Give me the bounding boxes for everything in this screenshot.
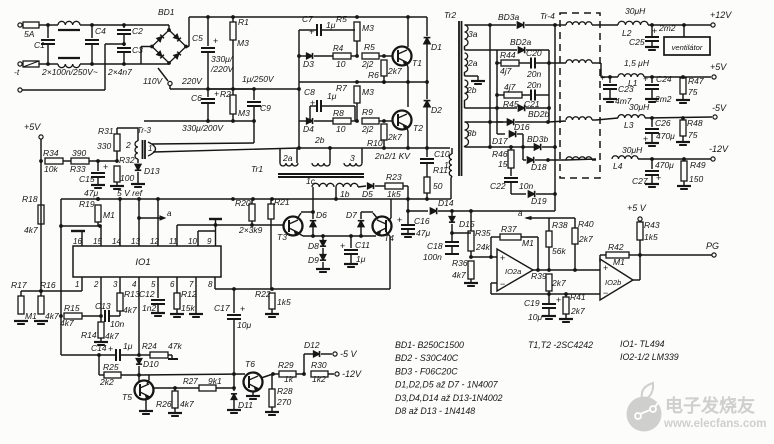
- svg-text:C6: C6: [191, 93, 202, 103]
- svg-text:+: +: [643, 74, 648, 84]
- svg-text:1μ/250V: 1μ/250V: [242, 74, 275, 84]
- svg-text:10: 10: [188, 237, 197, 246]
- svg-text:BD2 - S30C40C: BD2 - S30C40C: [395, 353, 459, 363]
- svg-text:C12: C12: [139, 289, 155, 299]
- svg-text:R25: R25: [103, 362, 119, 372]
- svg-text:-12V: -12V: [709, 144, 729, 154]
- svg-text:C26: C26: [655, 118, 671, 128]
- svg-text:R48: R48: [687, 118, 703, 128]
- svg-text:8: 8: [208, 280, 213, 289]
- svg-text:3b: 3b: [467, 128, 477, 138]
- svg-text:R32: R32: [119, 155, 135, 165]
- svg-text:15: 15: [498, 159, 508, 169]
- svg-text:R30: R30: [311, 360, 327, 370]
- svg-text:IO2b: IO2b: [605, 278, 621, 287]
- svg-text:R18: R18: [22, 194, 38, 204]
- svg-text:M1: M1: [103, 210, 115, 220]
- svg-text:D7: D7: [346, 210, 357, 220]
- svg-text:T1: T1: [412, 58, 422, 68]
- svg-text:4j7: 4j7: [504, 82, 516, 92]
- svg-text:R41: R41: [570, 292, 586, 302]
- svg-text:+5 V: +5 V: [627, 203, 647, 213]
- svg-text:R14: R14: [81, 330, 97, 340]
- svg-text:R35: R35: [475, 228, 491, 238]
- svg-text:5: 5: [151, 280, 156, 289]
- svg-text:C25: C25: [629, 37, 645, 47]
- svg-text:+: +: [600, 73, 605, 83]
- svg-text:R38: R38: [552, 220, 568, 230]
- svg-text:4k7: 4k7: [452, 270, 466, 280]
- svg-text:R5: R5: [336, 14, 347, 24]
- svg-text:56k: 56k: [552, 246, 566, 256]
- svg-text:R36: R36: [452, 258, 468, 268]
- svg-text:+: +: [397, 215, 402, 225]
- svg-text:10n: 10n: [519, 181, 533, 191]
- svg-text:R1: R1: [238, 17, 249, 27]
- svg-text:2: 2: [93, 280, 99, 289]
- svg-text:100n: 100n: [423, 252, 442, 262]
- svg-text:2n2/1 KV: 2n2/1 KV: [374, 151, 411, 161]
- svg-text:R34: R34: [43, 148, 59, 158]
- svg-text:+12V: +12V: [710, 10, 732, 20]
- svg-text:−: −: [500, 279, 505, 289]
- svg-text:R7: R7: [336, 83, 347, 93]
- svg-text:2b: 2b: [466, 85, 477, 95]
- svg-text:-12V: -12V: [342, 369, 362, 379]
- svg-text:D14: D14: [438, 198, 454, 208]
- svg-text:7: 7: [189, 280, 194, 289]
- svg-text:390: 390: [72, 148, 86, 158]
- svg-text:2k2: 2k2: [99, 377, 114, 387]
- svg-text:50: 50: [433, 181, 443, 191]
- svg-text:R4: R4: [333, 44, 344, 53]
- svg-text:1n2: 1n2: [142, 303, 156, 313]
- svg-text:R6: R6: [368, 70, 379, 80]
- svg-text:T6: T6: [245, 359, 255, 369]
- svg-text:C11: C11: [355, 240, 370, 250]
- svg-text:D8: D8: [308, 241, 319, 251]
- svg-text:2×3k9: 2×3k9: [238, 225, 263, 235]
- svg-text:R19: R19: [79, 199, 95, 209]
- svg-text:30μH: 30μH: [622, 145, 643, 155]
- svg-text:L4: L4: [613, 161, 623, 171]
- svg-text:C1: C1: [34, 40, 45, 50]
- svg-text:−: −: [603, 288, 608, 298]
- svg-text:R27: R27: [183, 377, 198, 386]
- svg-text:330: 330: [97, 141, 111, 151]
- svg-text:1: 1: [75, 280, 79, 289]
- svg-text:47μ: 47μ: [416, 228, 430, 238]
- svg-text:+: +: [603, 263, 608, 273]
- svg-text:20n: 20n: [526, 69, 541, 79]
- svg-text:+: +: [240, 304, 245, 314]
- svg-text:R12: R12: [181, 289, 197, 299]
- svg-text:IO1: IO1: [135, 257, 150, 268]
- svg-text:D8 až D13 - 1N4148: D8 až D13 - 1N4148: [395, 406, 475, 416]
- svg-text:1k2: 1k2: [312, 374, 326, 384]
- svg-text:1: 1: [148, 144, 152, 153]
- svg-text:/220V: /220V: [210, 64, 235, 74]
- svg-text:1k5: 1k5: [277, 297, 291, 307]
- svg-text:+: +: [103, 162, 108, 172]
- svg-text:2j2: 2j2: [361, 59, 374, 69]
- svg-text:R17: R17: [11, 280, 27, 290]
- svg-text:D12: D12: [304, 340, 320, 350]
- svg-text:Tr1: Tr1: [251, 164, 263, 174]
- svg-text:D4: D4: [303, 124, 314, 134]
- svg-text:BD2a: BD2a: [510, 37, 532, 47]
- svg-text:R16: R16: [40, 280, 56, 290]
- svg-text:M3: M3: [362, 87, 374, 97]
- svg-text:+: +: [500, 253, 505, 263]
- svg-text:-t: -t: [14, 67, 20, 77]
- svg-text:2k7: 2k7: [387, 66, 402, 76]
- svg-text:2k7: 2k7: [551, 278, 566, 288]
- svg-text:R29: R29: [278, 360, 294, 370]
- svg-text:2: 2: [125, 140, 131, 150]
- svg-text:3a: 3a: [468, 29, 478, 39]
- svg-text:R26: R26: [156, 399, 172, 409]
- svg-text:R39: R39: [531, 271, 547, 281]
- svg-text:30μH: 30μH: [629, 102, 650, 112]
- svg-text:9k1: 9k1: [208, 376, 222, 386]
- svg-text:2j2: 2j2: [361, 124, 374, 134]
- svg-text:D5: D5: [362, 189, 373, 199]
- svg-text:R23: R23: [386, 172, 402, 182]
- svg-text:C4: C4: [95, 26, 106, 36]
- svg-text:+: +: [108, 344, 113, 354]
- svg-text:1c: 1c: [306, 176, 316, 186]
- svg-text:M1: M1: [613, 257, 625, 267]
- svg-text:4k7: 4k7: [180, 399, 194, 409]
- svg-text:T1,T2 -2SC4242: T1,T2 -2SC4242: [528, 340, 593, 350]
- svg-text:+: +: [556, 295, 561, 305]
- svg-text:ventilátor: ventilátor: [672, 43, 703, 52]
- svg-text:+: +: [309, 27, 314, 37]
- svg-text:R37: R37: [501, 224, 517, 234]
- svg-text:4j7: 4j7: [500, 66, 512, 76]
- svg-text:R13: R13: [124, 289, 140, 299]
- svg-text:R45: R45: [503, 99, 519, 109]
- svg-text:2a: 2a: [467, 58, 478, 68]
- svg-text:1μ: 1μ: [123, 341, 133, 351]
- svg-text:+5V: +5V: [24, 122, 41, 132]
- svg-text:C18: C18: [427, 241, 443, 251]
- svg-text:4: 4: [132, 280, 137, 289]
- svg-text:+: +: [213, 36, 218, 46]
- svg-text:+: +: [340, 241, 345, 251]
- svg-text:D18: D18: [531, 162, 547, 172]
- svg-text:10n: 10n: [110, 319, 124, 329]
- svg-text:2k7: 2k7: [578, 234, 593, 244]
- svg-text:1k: 1k: [284, 374, 294, 384]
- svg-text:10μ: 10μ: [237, 320, 251, 330]
- svg-text:C23: C23: [618, 84, 634, 94]
- svg-text:+: +: [214, 89, 219, 99]
- svg-text:D17: D17: [492, 136, 508, 146]
- svg-text:D2: D2: [431, 105, 442, 115]
- svg-text:D11: D11: [238, 400, 253, 410]
- svg-text:1k5: 1k5: [644, 232, 658, 242]
- svg-text:R8: R8: [333, 108, 344, 118]
- svg-text:10k: 10k: [44, 164, 58, 174]
- svg-text:R47: R47: [688, 76, 704, 86]
- svg-text:1: 1: [444, 160, 449, 170]
- svg-text:2×100n/250V~: 2×100n/250V~: [41, 67, 98, 77]
- svg-text:Tr-3: Tr-3: [137, 126, 151, 135]
- svg-text:C14: C14: [91, 343, 107, 353]
- svg-text:PG: PG: [706, 241, 719, 251]
- svg-text:4k7: 4k7: [105, 331, 119, 341]
- svg-text:BD1- B250C1500: BD1- B250C1500: [395, 340, 464, 350]
- svg-text:Tr2: Tr2: [444, 10, 456, 20]
- svg-text:4k7: 4k7: [24, 225, 38, 235]
- svg-text:3: 3: [113, 280, 118, 289]
- svg-text:R2: R2: [220, 89, 231, 99]
- svg-text:2k7: 2k7: [570, 306, 585, 316]
- svg-text:IO1- TL494: IO1- TL494: [620, 339, 665, 349]
- svg-text:4k7: 4k7: [123, 305, 137, 315]
- svg-text:M1: M1: [522, 238, 534, 248]
- svg-text:C5: C5: [192, 33, 203, 43]
- svg-text:10μ: 10μ: [528, 312, 542, 322]
- svg-text:R46: R46: [492, 149, 508, 159]
- svg-text:C7: C7: [302, 14, 313, 24]
- svg-text:1μ: 1μ: [356, 254, 366, 264]
- svg-text:1b: 1b: [340, 189, 350, 199]
- svg-text:-5 V: -5 V: [340, 349, 358, 359]
- svg-text:D3: D3: [303, 59, 314, 69]
- svg-text:D3,D4,D14 až D13-1N4002: D3,D4,D14 až D13-1N4002: [395, 393, 503, 403]
- svg-text:R42: R42: [608, 242, 624, 252]
- svg-text:D19: D19: [531, 196, 547, 206]
- svg-text:2m2: 2m2: [658, 23, 676, 33]
- svg-text:BD2b: BD2b: [528, 109, 550, 119]
- svg-text:R44: R44: [500, 50, 516, 60]
- svg-text:15k: 15k: [181, 303, 195, 313]
- svg-text:2k7: 2k7: [387, 132, 402, 142]
- svg-text:5A: 5A: [24, 29, 35, 39]
- svg-text:C13: C13: [95, 301, 111, 311]
- svg-text:R24: R24: [142, 342, 157, 351]
- svg-text:110V: 110V: [143, 76, 164, 86]
- svg-text:100: 100: [120, 173, 134, 183]
- svg-text:R28: R28: [277, 386, 293, 396]
- svg-text:D6: D6: [316, 210, 327, 220]
- svg-text:www.elecfans.com: www.elecfans.com: [663, 418, 766, 430]
- svg-text:T3: T3: [277, 232, 287, 242]
- svg-text:16: 16: [73, 237, 82, 246]
- svg-text:M3: M3: [362, 23, 374, 33]
- svg-text:D15: D15: [459, 219, 475, 229]
- svg-text:330μ/200V: 330μ/200V: [182, 123, 224, 133]
- svg-text:30μH: 30μH: [625, 6, 646, 16]
- svg-text:+: +: [652, 26, 657, 36]
- svg-text:R9: R9: [362, 107, 373, 117]
- svg-text:BD3b: BD3b: [527, 134, 549, 144]
- svg-text:T5: T5: [122, 392, 132, 402]
- svg-text:150: 150: [689, 174, 703, 184]
- svg-text:C2: C2: [132, 26, 143, 36]
- svg-text:47k: 47k: [168, 341, 182, 351]
- svg-text:电子发烧友: 电子发烧友: [665, 395, 755, 416]
- svg-text:2a: 2a: [282, 153, 293, 163]
- svg-text:C15: C15: [79, 174, 95, 184]
- svg-text:R43: R43: [644, 220, 660, 230]
- svg-text:BD3 - F06C20C: BD3 - F06C20C: [395, 366, 458, 376]
- svg-text:3: 3: [350, 153, 355, 163]
- svg-text:47μ: 47μ: [84, 188, 98, 198]
- svg-text:470μ: 470μ: [655, 160, 674, 170]
- svg-text:9: 9: [207, 237, 212, 246]
- svg-text:R33: R33: [70, 164, 86, 174]
- svg-text:IO2-1/2 LM339: IO2-1/2 LM339: [620, 352, 679, 362]
- svg-text:C16: C16: [414, 216, 430, 226]
- svg-text:5 V ref: 5 V ref: [117, 188, 144, 198]
- svg-text:D10: D10: [143, 359, 159, 369]
- svg-text:M1: M1: [25, 311, 37, 321]
- svg-text:D13: D13: [144, 166, 160, 176]
- svg-text:D1,D2,D5 až D7 - 1N4007: D1,D2,D5 až D7 - 1N4007: [395, 380, 499, 390]
- svg-text:C21: C21: [524, 99, 540, 109]
- svg-text:6: 6: [170, 280, 175, 289]
- svg-text:Tr-4: Tr-4: [540, 11, 555, 21]
- svg-text:75: 75: [688, 87, 698, 97]
- svg-text:C10: C10: [434, 149, 450, 159]
- svg-text:10: 10: [336, 59, 346, 69]
- svg-text:BD1: BD1: [158, 7, 175, 17]
- svg-text:C19: C19: [524, 298, 540, 308]
- svg-text:1μ: 1μ: [327, 91, 337, 101]
- svg-text:R31: R31: [98, 126, 114, 136]
- svg-text:L3: L3: [624, 120, 634, 130]
- svg-text:R15: R15: [64, 303, 80, 313]
- svg-text:M3: M3: [237, 38, 249, 48]
- svg-text:a: a: [518, 209, 523, 218]
- svg-text:C24: C24: [656, 74, 672, 84]
- svg-text:M3: M3: [238, 108, 250, 118]
- svg-text:R22: R22: [255, 289, 271, 299]
- svg-text:R40: R40: [578, 219, 594, 229]
- svg-text:1μ: 1μ: [326, 20, 336, 30]
- svg-text:D9: D9: [308, 255, 319, 265]
- svg-text:C8: C8: [304, 87, 315, 97]
- svg-text:IO2a: IO2a: [505, 267, 521, 276]
- svg-text:2×4n7: 2×4n7: [107, 67, 132, 77]
- svg-text:R10: R10: [367, 138, 383, 148]
- svg-text:11: 11: [169, 237, 177, 246]
- svg-text:20n: 20n: [526, 80, 541, 90]
- svg-text:+: +: [656, 173, 661, 183]
- svg-text:4k7: 4k7: [60, 318, 74, 328]
- svg-text:10: 10: [336, 124, 346, 134]
- svg-text:330μ/: 330μ/: [211, 54, 234, 64]
- svg-text:R49: R49: [690, 160, 706, 170]
- svg-text:D1: D1: [431, 42, 442, 52]
- svg-text:270: 270: [276, 397, 291, 407]
- svg-text:T2: T2: [413, 123, 423, 133]
- svg-text:R21: R21: [274, 197, 290, 207]
- svg-text:1k5: 1k5: [387, 189, 401, 199]
- svg-text:D16: D16: [514, 122, 530, 132]
- svg-text:R20: R20: [235, 198, 251, 208]
- svg-text:R5: R5: [364, 42, 375, 52]
- svg-text:75: 75: [688, 130, 698, 140]
- svg-text:C20: C20: [526, 48, 542, 58]
- svg-text:470μ: 470μ: [656, 131, 675, 141]
- svg-text:C9: C9: [260, 103, 271, 113]
- svg-text:1,5 μH: 1,5 μH: [624, 58, 650, 68]
- svg-text:C22: C22: [490, 181, 506, 191]
- svg-text:24k: 24k: [475, 242, 490, 252]
- svg-text:+5V: +5V: [710, 62, 727, 72]
- svg-text:4k7: 4k7: [45, 311, 59, 321]
- svg-text:2b: 2b: [314, 135, 325, 145]
- svg-text:BD3a: BD3a: [498, 12, 520, 22]
- svg-text:-5V: -5V: [712, 103, 727, 113]
- svg-text:C17: C17: [214, 303, 230, 313]
- svg-text:220V: 220V: [181, 76, 203, 86]
- svg-text:a: a: [167, 209, 172, 218]
